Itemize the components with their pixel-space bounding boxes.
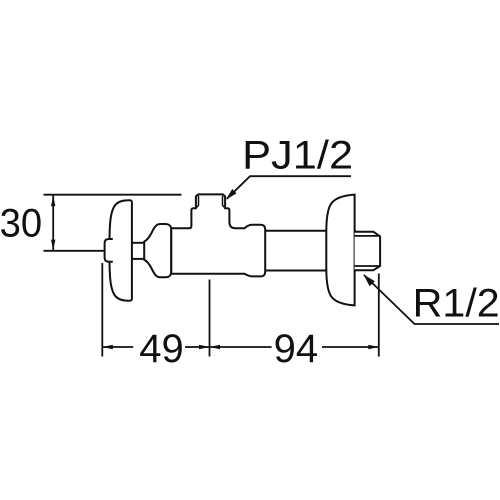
svg-text:49: 49 [139, 327, 184, 371]
svg-text:94: 94 [274, 327, 319, 371]
svg-text:R1/2: R1/2 [413, 282, 500, 326]
svg-text:PJ1/2: PJ1/2 [242, 134, 353, 178]
svg-text:30: 30 [0, 202, 42, 246]
